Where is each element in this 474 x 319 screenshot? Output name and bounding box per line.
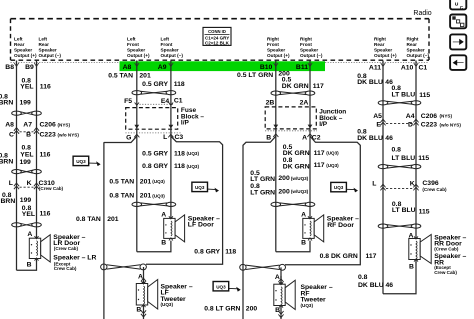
svg-text:Speaker – LR: Speaker – LR: [53, 254, 96, 261]
svg-text:A7: A7: [23, 122, 32, 129]
svg-text:199: 199: [20, 159, 32, 166]
conn id box: [203, 27, 231, 45]
svg-text:C396: C396: [422, 180, 438, 187]
wire LR bottom route: [17, 259, 37, 271]
label 0.8 YEL 116: [20, 78, 51, 91]
svg-text:2B: 2B: [266, 99, 275, 106]
svg-text:Speaker: Speaker: [374, 48, 392, 53]
svg-text:Speaker: Speaker: [14, 48, 32, 53]
svg-text:Output (+): Output (+): [267, 53, 290, 58]
speaker RF tweeter terminal B: [275, 307, 280, 314]
twisted pair LR 2: [12, 170, 42, 174]
svg-text:199: 199: [20, 99, 32, 106]
svg-text:BRN: BRN: [0, 158, 13, 165]
svg-text:LT GRN: LT GRN: [250, 176, 275, 183]
svg-text:BRN: BRN: [1, 198, 16, 205]
svg-text:Rear: Rear: [407, 42, 418, 47]
svg-text:Output (–): Output (–): [407, 53, 430, 58]
pin number B9: [25, 63, 39, 71]
svg-text:201: 201: [107, 216, 119, 223]
svg-text:0.8 DK GRN: 0.8 DK GRN: [320, 253, 358, 260]
svg-text:C2=12 BLK: C2=12 BLK: [205, 41, 230, 46]
svg-text:YEL: YEL: [22, 211, 35, 218]
svg-text:B10: B10: [260, 64, 273, 71]
svg-text:0.8: 0.8: [22, 145, 32, 152]
toolbar button 2: [450, 15, 466, 29]
speaker LF tweeter: [136, 280, 157, 310]
speaker RF door: [303, 215, 324, 242]
svg-text:LF Door: LF Door: [188, 222, 214, 229]
svg-text:A10: A10: [401, 64, 414, 71]
pin label right front output +: [267, 36, 290, 58]
svg-text:0.5 TAN: 0.5 TAN: [108, 72, 133, 79]
svg-text:0.8 GRY: 0.8 GRY: [194, 248, 220, 255]
wire RR bottom route: [383, 260, 416, 294]
connector C396: [372, 180, 447, 192]
wire right front dk grn B11: [309, 61, 311, 107]
label 0.8 LT GRN 200 w/UQ3: [250, 183, 308, 196]
wire left front tan A8: [136, 61, 138, 108]
svg-text:DK GRN: DK GRN: [283, 150, 310, 157]
speaker RF door terminal A: [301, 211, 306, 218]
svg-text:Front: Front: [127, 42, 139, 47]
svg-text:DK GRN: DK GRN: [283, 163, 310, 170]
radio dashed box: [11, 19, 430, 60]
twisted pair LF 1: [132, 91, 176, 95]
svg-text:(UQ3): (UQ3): [326, 151, 339, 156]
svg-text:0.8 TAN: 0.8 TAN: [109, 193, 134, 200]
twisted pair LF 2: [132, 202, 176, 206]
svg-text:CONN ID: CONN ID: [208, 29, 226, 34]
wire RF bottom route: [276, 241, 310, 252]
svg-text:0.8: 0.8: [392, 85, 402, 92]
pin number B8: [5, 63, 18, 71]
svg-text:201: 201: [140, 178, 152, 185]
svg-text:C3: C3: [175, 134, 184, 141]
svg-text:C1=24 GRY: C1=24 GRY: [205, 35, 229, 40]
svg-text:C206: C206: [40, 122, 56, 129]
twisted pair RR 3: [378, 224, 421, 228]
junction block text: [319, 109, 346, 128]
speaker LF door terminal A: [161, 211, 166, 218]
label 0.8 LT GRN 200 branch: [204, 305, 257, 312]
pin label left rear output -: [39, 36, 62, 58]
speaker LF tweeter text: [161, 283, 193, 307]
svg-text:Tweeter: Tweeter: [161, 296, 187, 303]
wire A dk grn down: [309, 136, 311, 218]
speaker LR text: [53, 234, 96, 271]
label 0.8 TAN 201 branch: [76, 216, 119, 223]
svg-text:B: B: [161, 240, 166, 247]
svg-text:G: G: [126, 135, 131, 142]
svg-text:A11: A11: [369, 64, 381, 71]
svg-text:Output (–): Output (–): [39, 53, 62, 58]
pin number A9: [158, 63, 173, 71]
label 0.8 LT BLU 115 third: [392, 201, 430, 215]
svg-text:(UQ3): (UQ3): [152, 193, 165, 198]
svg-text:Output (+): Output (+): [14, 53, 37, 58]
label 0.8 BRN 199 second: [0, 153, 31, 166]
svg-text:46: 46: [385, 135, 393, 142]
wire branch B lt grn to tweeter: [243, 129, 276, 319]
twisted pair RR 1: [378, 101, 421, 105]
svg-text:Speaker: Speaker: [39, 48, 57, 53]
svg-text:200: 200: [246, 305, 258, 312]
svg-text:B: B: [27, 261, 32, 268]
toolbar button 1: [450, 0, 466, 10]
svg-text:C223: C223: [40, 132, 56, 139]
label 0.8 DK BLU 46 bottom: [358, 274, 393, 289]
twisted pair RF 1: [271, 91, 315, 95]
connector C1 label top: [419, 64, 428, 71]
toolbar button 4 left arrow: [450, 55, 466, 70]
svg-text:B: B: [301, 240, 306, 247]
pin number A11: [369, 63, 385, 71]
svg-text:DK GRN: DK GRN: [282, 83, 309, 90]
wire left rear yel B9: [36, 61, 38, 239]
speaker RR terminal B: [409, 264, 414, 271]
wire B lt grn down: [275, 136, 277, 252]
twisted pair RR 2: [378, 165, 421, 169]
junction block pins 2B 2A: [266, 99, 309, 106]
speaker RF tweeter: [274, 280, 295, 309]
svg-text:A8: A8: [5, 122, 14, 129]
wire branch L gry to tweeter: [146, 129, 223, 264]
svg-text:LT BLU: LT BLU: [392, 155, 416, 162]
svg-text:115: 115: [419, 208, 430, 215]
svg-text:C: C: [9, 132, 14, 139]
svg-text:(NYS): (NYS): [440, 114, 453, 119]
svg-text:118: 118: [174, 81, 185, 88]
svg-text:0.8 TAN: 0.8 TAN: [76, 216, 101, 223]
label 0.8 BRN 199: [0, 94, 31, 107]
svg-text:B: B: [266, 135, 271, 142]
svg-text:UQ3: UQ3: [195, 185, 205, 190]
wire G tan down: [136, 136, 138, 252]
svg-text:Output (–): Output (–): [300, 53, 323, 58]
svg-text:0.8 GRY: 0.8 GRY: [142, 163, 168, 170]
svg-text:Output (+): Output (+): [374, 53, 397, 58]
label 0.8 DK GRN 117 branch: [320, 253, 377, 260]
svg-text:(UQ3): (UQ3): [161, 302, 174, 307]
svg-text:(NYS): (NYS): [58, 122, 71, 127]
svg-text:Radio: Radio: [413, 10, 431, 17]
svg-text:Front: Front: [267, 42, 279, 47]
pin number A10: [401, 63, 418, 71]
label 0.8 DK BLU 46 second: [357, 128, 393, 142]
speaker LF door: [164, 215, 185, 242]
twisted pair LR 3: [12, 223, 42, 227]
wire LF tweeter A: [141, 267, 146, 285]
wire LF tweeter B: [141, 305, 146, 319]
svg-text:Rear: Rear: [374, 42, 385, 47]
svg-text:B9: B9: [25, 64, 34, 71]
svg-text:0.5 TAN: 0.5 TAN: [109, 178, 134, 185]
junction block I/P dashed box: [265, 107, 316, 129]
svg-text:117: 117: [314, 150, 325, 157]
connector C310: [9, 180, 64, 191]
wire left rear brn B8: [16, 61, 18, 271]
label 0.8 YEL 116 second: [20, 145, 50, 159]
UQ3 callout 1: [73, 156, 101, 166]
label 0.5 TAN 201 UQ3: [109, 178, 165, 185]
svg-text:D: D: [408, 122, 413, 129]
fuse block text: [181, 107, 205, 126]
svg-text:117: 117: [313, 83, 324, 90]
label 0.8 BRN 199 third: [1, 192, 32, 205]
svg-text:RF Door: RF Door: [327, 222, 354, 229]
svg-text:C1: C1: [419, 64, 428, 71]
svg-text:(Crew Cab): (Crew Cab): [39, 186, 64, 191]
svg-text:Right: Right: [267, 36, 279, 41]
svg-text:UQ3: UQ3: [76, 159, 86, 164]
svg-text:115: 115: [419, 92, 430, 99]
svg-text:Crew Cab): Crew Cab): [54, 266, 77, 271]
svg-text:YEL: YEL: [20, 84, 33, 91]
svg-text:0.8: 0.8: [358, 274, 368, 281]
label 0.5 LT GRN 200 w/UQ3: [250, 170, 308, 183]
wire L gry down: [170, 136, 172, 218]
speaker LF tweeter terminal A: [138, 273, 143, 280]
svg-text:(UQ3): (UQ3): [187, 151, 200, 156]
svg-text:116: 116: [40, 211, 51, 218]
svg-text:201: 201: [140, 193, 152, 200]
svg-text:B11: B11: [296, 64, 308, 71]
svg-text:B8: B8: [5, 64, 14, 71]
svg-text:Front: Front: [300, 42, 312, 47]
UQ3 callout 3: [331, 182, 358, 192]
pin label right rear output -: [407, 36, 430, 58]
svg-text:117: 117: [366, 253, 377, 260]
speaker RR text: [434, 234, 466, 275]
svg-text:2A: 2A: [300, 99, 309, 106]
svg-text:UQ3: UQ3: [334, 185, 344, 190]
svg-text:0.8 LT GRN: 0.8 LT GRN: [204, 305, 240, 312]
label 0.5 DK GRN 117 UQ3: [283, 144, 339, 157]
label 0.5 LT GRN 200: [237, 71, 290, 79]
label 0.8 LT BLU 115: [392, 85, 431, 99]
speaker LR terminal B: [27, 261, 32, 268]
speaker RF tweeter terminal A: [275, 274, 280, 281]
label 0.5 GRY 118 UQ3: [142, 150, 199, 157]
svg-text:I/P: I/P: [319, 121, 328, 128]
connector C2 row: [265, 131, 321, 142]
svg-text:C206: C206: [421, 113, 437, 120]
svg-text:Left: Left: [39, 36, 48, 41]
twisted pair LF tweeter: [101, 264, 147, 270]
wire LF bottom route: [137, 241, 171, 252]
speaker LF tweeter terminal B: [136, 306, 141, 313]
svg-text:200: 200: [278, 188, 290, 195]
svg-text:Rear: Rear: [39, 42, 50, 47]
svg-text:0.5 LT GRN: 0.5 LT GRN: [237, 72, 273, 79]
svg-text:116: 116: [40, 84, 51, 91]
svg-text:A: A: [27, 231, 32, 238]
pin label left front output +: [127, 36, 150, 58]
svg-text:0.8: 0.8: [357, 128, 367, 135]
label 0.8 LT BLU 115 second: [392, 147, 430, 163]
label 0.8 GRY 118 UQ3: [142, 163, 199, 170]
svg-text:A5: A5: [373, 113, 382, 120]
fuse block I/P dashed box: [126, 108, 178, 130]
svg-text:I/P: I/P: [181, 120, 190, 127]
svg-text:200: 200: [278, 175, 290, 182]
wire right front lt grn B10: [275, 61, 277, 107]
connector C3 row: [125, 133, 183, 142]
svg-text:(Except: (Except: [434, 265, 451, 270]
pin label right front output -: [300, 36, 323, 58]
svg-text:A: A: [161, 211, 166, 218]
speaker RF tweeter text: [301, 284, 333, 308]
svg-text:Right: Right: [407, 36, 419, 41]
svg-text:(UQ3): (UQ3): [152, 179, 165, 184]
connector C206/C223 right rear: [373, 113, 461, 129]
svg-text:Speaker: Speaker: [127, 48, 145, 53]
svg-text:UQ3: UQ3: [216, 284, 226, 289]
svg-text:K: K: [27, 180, 32, 187]
svg-text:201: 201: [139, 72, 151, 79]
pin number A8: [123, 63, 139, 71]
svg-text:(w/o NYS): (w/o NYS): [58, 132, 80, 137]
speaker RR terminal A: [408, 232, 413, 239]
svg-text:L: L: [163, 134, 167, 141]
svg-text:(Crew Cab): (Crew Cab): [54, 246, 79, 251]
speaker LF door terminal B: [161, 240, 166, 247]
svg-text:0.5 GRY: 0.5 GRY: [142, 150, 168, 157]
UQ3 callout 4: [213, 282, 241, 292]
svg-text:Output (+): Output (+): [127, 53, 150, 58]
pin label right rear output +: [374, 36, 397, 58]
svg-text:Speaker: Speaker: [161, 48, 179, 53]
pin number B10: [260, 63, 278, 71]
wire RF tweeter B: [278, 306, 283, 319]
svg-text:Rear: Rear: [14, 42, 25, 47]
label 0.8 DK GRN 117 UQ3: [283, 157, 339, 170]
svg-text:(UQ3): (UQ3): [301, 303, 314, 308]
label 0.5 TAN 201: [108, 72, 151, 79]
speaker LF door text: [188, 215, 220, 228]
svg-text:(w/o NYS): (w/o NYS): [440, 122, 462, 127]
radio label: [413, 10, 431, 17]
svg-text:A8: A8: [123, 64, 132, 71]
svg-text:Speaker: Speaker: [300, 48, 318, 53]
twisted pair RF tweeter: [240, 264, 286, 270]
svg-text:U: U: [455, 1, 459, 7]
svg-text:Right: Right: [300, 36, 312, 41]
label 0.8 GRY 118 branch: [194, 248, 236, 255]
svg-text:DK BLU: DK BLU: [357, 135, 383, 142]
pin number B11: [296, 63, 312, 71]
svg-text:Right: Right: [374, 36, 386, 41]
svg-text:(Crew Cab): (Crew Cab): [422, 187, 447, 192]
svg-text:C1: C1: [174, 98, 183, 105]
label 0.5 DK GRN 117: [282, 76, 324, 90]
svg-text:LT GRN: LT GRN: [250, 189, 275, 196]
wire RF tweeter A: [278, 267, 283, 285]
svg-text:E4: E4: [161, 98, 170, 105]
svg-text:A4: A4: [406, 113, 415, 120]
svg-text:118: 118: [225, 248, 236, 255]
svg-text:117: 117: [314, 162, 325, 169]
svg-text:L: L: [9, 180, 13, 187]
svg-text:A: A: [138, 273, 143, 280]
svg-text:(Crew Cab): (Crew Cab): [434, 246, 459, 251]
svg-text:Front: Front: [161, 42, 173, 47]
svg-text:A9: A9: [158, 64, 167, 71]
speaker LR terminal A: [27, 231, 32, 238]
UQ3 callout 2: [192, 182, 219, 192]
svg-text:Crew Cab): Crew Cab): [434, 270, 457, 275]
svg-text:B: B: [26, 132, 31, 139]
svg-text:YEL: YEL: [20, 151, 33, 158]
connector C206/C223 left rear: [5, 122, 79, 139]
svg-text:(UQ3): (UQ3): [326, 163, 339, 168]
svg-text:Speaker: Speaker: [267, 48, 285, 53]
svg-text:199: 199: [20, 197, 32, 204]
wire right rear dk blu A11: [382, 61, 384, 294]
svg-text:Left: Left: [14, 36, 23, 41]
svg-text:(w/UQ3): (w/UQ3): [291, 176, 309, 181]
svg-text:C223: C223: [421, 122, 437, 129]
svg-text:Left: Left: [127, 36, 136, 41]
svg-text:LT BLU: LT BLU: [392, 92, 416, 99]
label 0.5 GRY 118: [142, 81, 185, 88]
svg-text:118: 118: [174, 150, 185, 157]
pin label left front output -: [161, 36, 184, 58]
svg-text:BRN: BRN: [0, 99, 13, 106]
radio box bottom dashed line: [11, 60, 430, 62]
svg-text:(w/UQ3): (w/UQ3): [291, 189, 309, 194]
toolbar button 3 right arrow: [450, 34, 466, 49]
svg-text:Speaker: Speaker: [407, 48, 425, 53]
speaker RF door terminal B: [301, 240, 306, 247]
svg-text:0.5 GRY: 0.5 GRY: [142, 81, 168, 88]
svg-text:F5: F5: [124, 98, 132, 105]
fuse block pins F5 E4 C1: [124, 98, 183, 106]
svg-text:A: A: [301, 211, 306, 218]
pin label left rear output +: [14, 36, 37, 58]
svg-text:0.8: 0.8: [392, 147, 402, 154]
label 0.8 YEL 116 third: [22, 205, 51, 218]
svg-text:118: 118: [174, 163, 185, 170]
wire branch A dk grn to tweeter: [285, 129, 360, 265]
svg-text:LT BLU: LT BLU: [392, 207, 416, 214]
svg-text:116: 116: [40, 151, 51, 158]
wire branch G tan to tweeter: [104, 129, 137, 319]
svg-text:Tweeter: Tweeter: [301, 297, 327, 304]
svg-text:L: L: [372, 181, 376, 188]
svg-text:DK BLU: DK BLU: [358, 282, 384, 289]
label 0.8 TAN 201 UQ3: [109, 193, 165, 200]
green highlight bar: [120, 61, 326, 71]
svg-text:115: 115: [418, 155, 429, 162]
svg-text:(Except: (Except: [54, 261, 71, 266]
wire left front gry A9: [170, 61, 172, 108]
svg-text:Output (–): Output (–): [161, 53, 184, 58]
svg-text:Left: Left: [161, 36, 170, 41]
svg-text:E: E: [376, 122, 381, 129]
svg-text:A: A: [302, 134, 307, 141]
svg-text:DK BLU: DK BLU: [357, 79, 383, 86]
speaker RR: [409, 235, 431, 264]
svg-text:46: 46: [386, 282, 394, 289]
speaker RF door text: [327, 216, 359, 229]
wire right rear lt blu A10: [415, 61, 417, 239]
svg-text:A: A: [275, 274, 280, 281]
svg-text:B: B: [136, 306, 141, 313]
speaker LR: [29, 235, 50, 262]
svg-text:B: B: [409, 264, 414, 271]
